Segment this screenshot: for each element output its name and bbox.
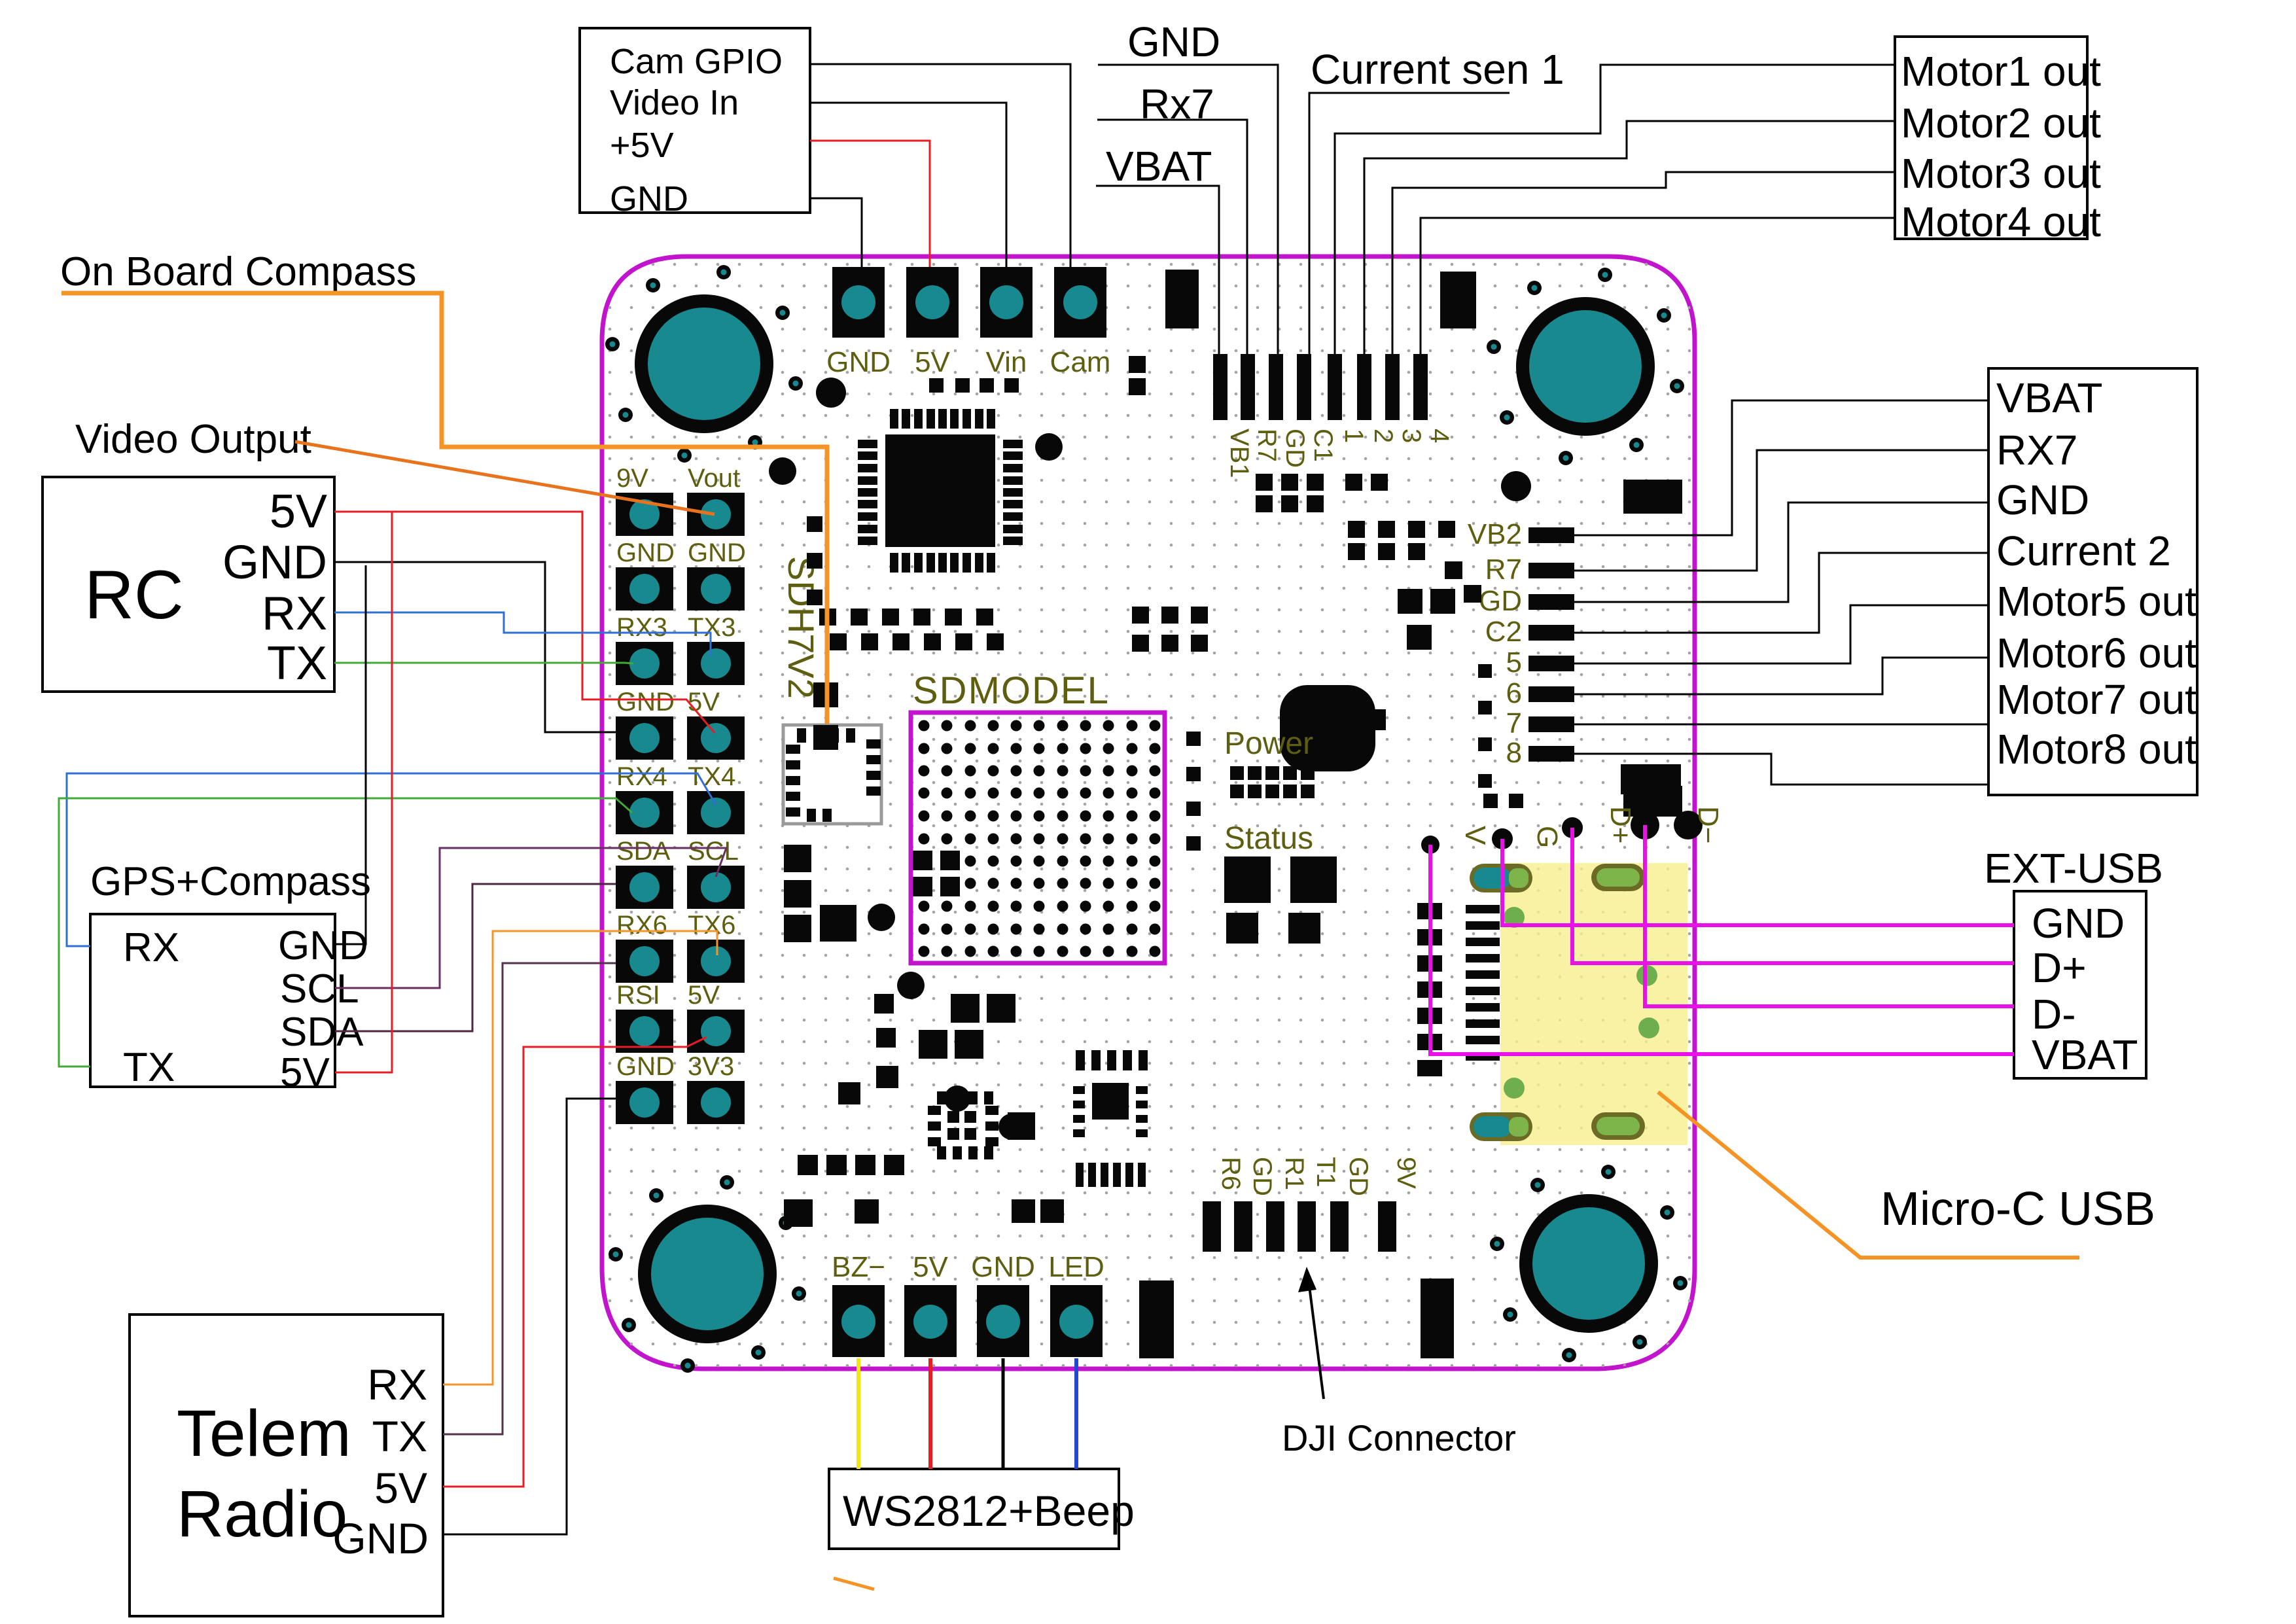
svg-text:Video In: Video In [610, 83, 739, 122]
via [769, 457, 796, 485]
header pad 5V [687, 716, 745, 760]
square right of QFN [1008, 1112, 1035, 1140]
svg-text:RX3: RX3 [616, 613, 667, 642]
svg-text:Power: Power [1224, 726, 1313, 761]
svg-text:GND: GND [332, 1514, 429, 1562]
wire Telem RX (orange) [443, 931, 717, 1385]
svg-text:GD: GD [1280, 429, 1309, 468]
wire LED (blue) [1074, 1358, 1078, 1469]
wire Telem TX (plum) [443, 963, 616, 1434]
svg-text:GND: GND [2032, 900, 2125, 947]
svg-text:5V: 5V [915, 346, 950, 378]
svg-text:RX: RX [123, 925, 179, 970]
header pad RX3 [616, 642, 673, 685]
header pad 9V [616, 493, 673, 536]
via [868, 904, 895, 931]
svg-text:5V: 5V [374, 1464, 427, 1512]
svg-text:G: G [1531, 826, 1563, 848]
svg-text:TX6: TX6 [688, 911, 735, 940]
mounting hole TL [635, 294, 773, 433]
svg-text:Status: Status [1224, 821, 1313, 856]
USB pad spare [1674, 811, 1703, 839]
green via [1504, 907, 1525, 928]
wire USB D- (magenta) [1645, 825, 2014, 1006]
Cam GPIO box text [610, 42, 783, 219]
bottom pad GND [977, 1285, 1029, 1357]
svg-text:5V: 5V [913, 1251, 948, 1283]
svg-text:TX: TX [372, 1412, 427, 1460]
svg-text:Telem: Telem [177, 1397, 351, 1470]
svg-text:4: 4 [1425, 429, 1454, 443]
svg-text:GND: GND [688, 538, 746, 567]
passives row y1765 [798, 1155, 904, 1175]
QFN chip U3 [928, 1091, 998, 1159]
GPS box text [123, 923, 368, 1095]
right pad 6 [1528, 686, 1574, 702]
svg-text:Motor5 out: Motor5 out [1996, 578, 2197, 625]
svg-text:GND: GND [1996, 476, 2089, 523]
Telem Radio text [177, 1360, 429, 1562]
via ring around hole BR [1490, 1165, 1687, 1362]
right pins text [1996, 374, 2197, 773]
svg-text:Current sen 1: Current sen 1 [1311, 46, 1564, 93]
top rect near board TR [1440, 272, 1476, 328]
svg-text:+5V: +5V [610, 126, 674, 165]
passive pair left-mid [813, 682, 838, 750]
barometer (black blob) [1280, 685, 1386, 771]
bottom pad BZ− [832, 1285, 885, 1357]
right pad 8 [1528, 746, 1574, 762]
top pin strip pads VB1 R7 GD C1 1 2 3 4 [1213, 354, 1428, 420]
MCU U1 (STM32) with pins [858, 409, 1023, 573]
wire GPS SDA (plum) [335, 884, 616, 1031]
wire Micro-C USB pointer (orange) [1658, 1092, 2079, 1258]
green via [1638, 1017, 1659, 1038]
passives small below BGA [874, 994, 896, 1048]
wire pin7 to Motor7 out [1574, 724, 1988, 726]
svg-text:2: 2 [1369, 429, 1398, 443]
USB pad V [1421, 836, 1439, 854]
svg-text:SDH7V2: SDH7V2 [781, 556, 822, 699]
svg-text:Radio: Radio [177, 1477, 347, 1551]
passives lower-left [838, 1066, 898, 1104]
Motor1-4 box [1895, 37, 2087, 239]
svg-text:DJI Connector: DJI Connector [1282, 1417, 1516, 1458]
passives 2x2 below BGA [919, 994, 1016, 1059]
black rect right of LED pad [1139, 1280, 1174, 1358]
svg-text:SDMODEL: SDMODEL [913, 669, 1110, 712]
via [944, 1086, 970, 1112]
wire RC RX (blue) [334, 612, 711, 656]
DJI strip pad 9V [1378, 1201, 1396, 1252]
passives left of baro [1132, 607, 1208, 652]
wire On Board Compass (orange) [62, 293, 827, 724]
svg-text:7: 7 [1506, 707, 1522, 739]
svg-text:GND: GND [971, 1251, 1035, 1283]
svg-text:Motor8 out: Motor8 out [1996, 726, 2197, 773]
svg-text:TX: TX [267, 637, 327, 690]
svg-text:VBAT: VBAT [2032, 1031, 2138, 1078]
right pad C2 [1528, 625, 1574, 641]
RC box [43, 477, 334, 692]
squares below Status [1224, 856, 1337, 944]
passives right of header [807, 516, 822, 605]
wire USB GND (magenta) [1502, 839, 2014, 925]
via [1501, 471, 1531, 501]
svg-text:GND: GND [222, 537, 327, 589]
right pad 5 [1528, 656, 1574, 671]
passives 2x2 left of BGA [913, 851, 960, 896]
svg-text:5V: 5V [688, 688, 720, 716]
svg-text:Motor4 out: Motor4 out [1901, 198, 2101, 245]
right pad VB2 [1528, 527, 1574, 543]
svg-text:Cam: Cam [1050, 346, 1111, 378]
header pad SCL [687, 866, 745, 909]
rect right-mid-low [1623, 786, 1682, 817]
wire GPS GND (black) [335, 565, 366, 944]
wire GND label to GD pin [1098, 65, 1278, 354]
svg-text:5: 5 [1506, 646, 1522, 679]
QFN chip U4 [1073, 1050, 1148, 1187]
EXT-USB text [2032, 900, 2138, 1078]
rect right of TR hole [1623, 480, 1682, 514]
wire +5V to 5V pad (red) [810, 141, 930, 267]
svg-text:GND: GND [1127, 18, 1220, 65]
svg-text:Cam GPIO: Cam GPIO [610, 42, 783, 81]
svg-text:TX: TX [123, 1045, 175, 1090]
svg-text:8: 8 [1506, 737, 1522, 769]
USB mount pad BR [1591, 1112, 1645, 1140]
USB pad G [1492, 828, 1513, 849]
svg-text:Motor7 out: Motor7 out [1996, 676, 2197, 723]
svg-text:D+: D+ [1604, 806, 1636, 843]
svg-text:5V: 5V [270, 485, 327, 538]
svg-text:1: 1 [1339, 429, 1368, 443]
flight controller board outline (magenta) [602, 256, 1695, 1369]
GPS box [90, 914, 335, 1087]
passives right of 5V pad [1012, 1199, 1064, 1223]
svg-text:RX: RX [262, 588, 327, 640]
top pad Vin [980, 267, 1033, 338]
passive big square [820, 905, 857, 942]
wire GPS SCL (plum) [335, 848, 726, 988]
passive pair near TR [1129, 356, 1146, 395]
wire GPS 5V (red) [335, 512, 392, 1072]
right strip pair [1483, 794, 1523, 808]
top pad 5V [906, 267, 959, 338]
svg-text:VBAT: VBAT [1106, 143, 1212, 190]
wire Video Output (orange) [295, 442, 715, 514]
svg-text:GND: GND [616, 1052, 675, 1081]
svg-text:Motor1 out: Motor1 out [1901, 48, 2101, 95]
svg-text:TX4: TX4 [688, 762, 735, 791]
USB pad D+ [1562, 817, 1583, 838]
header pad RX6 [616, 940, 673, 983]
wire Telem GND (black) [443, 1099, 616, 1534]
Telem Radio box [130, 1315, 443, 1616]
rect above USB [1621, 764, 1681, 794]
svg-text:RX: RX [367, 1360, 427, 1409]
wire pin5 to Motor5 out [1574, 605, 1988, 663]
wire Telem 5V (red) [443, 1037, 707, 1487]
svg-text:RX6: RX6 [616, 911, 667, 940]
Motor1-4 text [1901, 48, 2101, 245]
passives diag pair [1445, 561, 1481, 603]
stray orange segment [834, 1578, 874, 1589]
wire BZ- (yellow) [857, 1358, 860, 1469]
wire pin6 to Motor6 out [1574, 658, 1988, 694]
svg-text:6: 6 [1506, 677, 1522, 709]
svg-text:GND: GND [826, 346, 891, 378]
bottom pad 5V [904, 1285, 957, 1357]
wire Rx7 label to R7 pin [1097, 120, 1247, 354]
via ring around hole TL [605, 265, 803, 463]
black rect bottom right [1421, 1279, 1454, 1358]
header pad RX4 [616, 791, 673, 834]
svg-text:Motor2 out: Motor2 out [1901, 99, 2101, 147]
svg-text:D−: D− [1692, 806, 1724, 843]
wire C2 to Current 2 [1574, 553, 1988, 633]
svg-text:VBAT: VBAT [1996, 374, 2102, 421]
wire RC 5V (red) [334, 512, 715, 733]
passives col left of BGA [784, 845, 811, 942]
top pad Cam [1054, 267, 1106, 338]
wire GND to GND pad [810, 198, 862, 267]
passives below MCU row1 [819, 609, 993, 626]
svg-text:GND: GND [616, 688, 675, 716]
svg-text:T1: T1 [1311, 1157, 1340, 1188]
DJI connector arrow [1298, 1267, 1324, 1399]
header pad SDA [616, 866, 673, 909]
svg-text:Vin: Vin [986, 346, 1027, 378]
right pad GD [1528, 594, 1574, 610]
svg-text:WS2812+Beep: WS2812+Beep [843, 1487, 1135, 1535]
svg-text:3V3: 3V3 [688, 1052, 734, 1081]
svg-text:RSI: RSI [616, 981, 660, 1010]
svg-text:Micro-C USB: Micro-C USB [1881, 1183, 2155, 1235]
passives cluster center-right [1348, 521, 1455, 560]
USB mount pad TR [1591, 864, 1645, 891]
on-board compass chip U2 (gray outline) [783, 725, 881, 824]
svg-text:R6: R6 [1216, 1157, 1245, 1190]
via ring around hole TR [1487, 268, 1684, 465]
green via [1636, 965, 1657, 986]
mounting hole BR [1519, 1194, 1658, 1333]
bottom pad LED [1050, 1285, 1103, 1357]
svg-text:D+: D+ [2032, 944, 2087, 991]
wire Cam GPIO to Cam pad [810, 64, 1070, 267]
wire pin3 to Motor3 out [1392, 172, 1895, 354]
passives below MCU row2 [830, 633, 1004, 650]
svg-text:R7: R7 [1252, 429, 1281, 462]
DJI strip pad R1 [1266, 1201, 1284, 1252]
EXT-USB box [2014, 891, 2146, 1078]
svg-text:Motor3 out: Motor3 out [1901, 150, 2101, 197]
svg-text:RX4: RX4 [616, 762, 667, 791]
header pad 5V [687, 1010, 745, 1053]
svg-text:GPS+Compass: GPS+Compass [90, 859, 371, 904]
svg-text:GD: GD [1248, 1157, 1277, 1196]
svg-text:V: V [1459, 826, 1491, 845]
svg-text:GD: GD [1344, 1157, 1373, 1196]
header pad RSI [616, 1010, 673, 1053]
svg-text:R7: R7 [1485, 554, 1522, 586]
USB highlight (yellow) [1500, 863, 1687, 1145]
USB connector pins [1466, 905, 1500, 1061]
svg-text:5V: 5V [280, 1050, 330, 1095]
wire GD to GND [1574, 503, 1988, 602]
svg-text:Video Output: Video Output [75, 417, 311, 462]
DJI strip pad T1 [1298, 1201, 1316, 1252]
green via [1504, 1078, 1525, 1099]
svg-text:9V: 9V [1392, 1157, 1421, 1189]
svg-text:5V: 5V [688, 981, 720, 1010]
via ring around hole BL [609, 1175, 806, 1373]
DJI strip pad GD [1330, 1201, 1349, 1252]
svg-text:BZ−: BZ− [832, 1251, 885, 1283]
DJI strip pad R6 [1203, 1201, 1221, 1252]
svg-text:C1: C1 [1309, 429, 1337, 462]
USB shield pads [1417, 903, 1442, 1076]
svg-text:GND: GND [278, 923, 368, 968]
USB pad D- [1631, 811, 1659, 839]
USB mount pad BL [1470, 1112, 1532, 1141]
wire VB2 to VBAT [1574, 400, 1988, 535]
svg-text:VB1: VB1 [1225, 429, 1254, 478]
svg-text:Vout: Vout [688, 464, 740, 493]
svg-text:LED: LED [1048, 1251, 1104, 1283]
passives under top pads [929, 378, 1019, 393]
wire pin1 to Motor1 out [1335, 65, 1895, 354]
wire GPS TX (green) [59, 798, 632, 1067]
right pad R7 [1528, 563, 1574, 578]
svg-text:9V: 9V [616, 464, 648, 493]
wire Current sen 1 to C1 pin [1309, 93, 1510, 354]
svg-text:GND: GND [616, 538, 675, 567]
svg-text:EXT-USB: EXT-USB [1984, 845, 2163, 892]
svg-text:TX3: TX3 [688, 613, 735, 642]
wire R7 to RX7 [1574, 450, 1988, 571]
wire RC GND (black) [334, 562, 616, 732]
via [816, 378, 846, 408]
svg-text:RC: RC [84, 557, 184, 633]
header pad Vout [687, 493, 745, 536]
wire USB D+ (magenta) [1572, 828, 2014, 963]
WS2812 box [829, 1469, 1119, 1549]
header pad GND [687, 567, 745, 610]
top pad GND [832, 267, 885, 338]
right pins box [1988, 368, 2197, 795]
DJI strip pad GD [1234, 1201, 1252, 1252]
right pad 7 [1528, 716, 1574, 732]
header pad GND [616, 567, 673, 610]
via [1035, 433, 1063, 461]
svg-text:Motor6 out: Motor6 out [1996, 629, 2197, 677]
svg-text:C2: C2 [1485, 616, 1522, 648]
svg-text:SCL: SCL [688, 837, 739, 866]
wire 5V (red) [928, 1358, 932, 1469]
svg-text:R1: R1 [1280, 1157, 1309, 1190]
wire GPS RX (blue) [67, 773, 716, 946]
svg-text:Current 2: Current 2 [1996, 527, 2171, 574]
wire VBAT label to VB1 pin [1096, 186, 1219, 354]
svg-text:GD: GD [1479, 585, 1522, 617]
header pad GND [616, 716, 673, 760]
passives below baro [1398, 589, 1455, 650]
mounting hole TR [1516, 297, 1655, 436]
RC box text [84, 485, 327, 690]
top rect near GND pad [1165, 270, 1199, 328]
via [998, 1114, 1025, 1140]
header pad TX6 [687, 940, 745, 983]
wire RC TX (green) [334, 663, 633, 663]
svg-text:On Board Compass: On Board Compass [60, 249, 416, 294]
wire pin4 to Motor4 out [1421, 218, 1895, 354]
right strip squares [1478, 664, 1492, 788]
header pad GND [616, 1081, 673, 1124]
mounting hole BL [638, 1205, 777, 1343]
svg-text:VB2: VB2 [1468, 518, 1522, 550]
header pad TX3 [687, 642, 745, 685]
svg-text:GND: GND [610, 179, 688, 219]
svg-text:3: 3 [1397, 429, 1426, 443]
wire USB VBAT (magenta) [1430, 845, 2014, 1054]
wire pin8 to Motor8 out [1574, 754, 1988, 785]
header pad 3V3 [687, 1081, 745, 1124]
passives above GND pad [784, 1199, 879, 1227]
wire Video In to Vin pad [810, 103, 1006, 267]
board grid dots [602, 256, 1695, 1369]
svg-text:SDA: SDA [616, 837, 671, 866]
svg-text:RX7: RX7 [1996, 427, 2078, 474]
left strip tiny squares [1186, 732, 1201, 851]
passives right of MCU [1256, 474, 1388, 512]
header pad TX4 [687, 791, 745, 834]
wire pin2 to Motor2 out [1364, 121, 1895, 354]
BGA pad grid (magenta box) [911, 713, 1165, 963]
wire GND (black) [1002, 1358, 1005, 1469]
via [897, 972, 925, 999]
USB mount pad TL [1470, 864, 1532, 892]
Cam GPIO box [580, 28, 810, 213]
passives under Power [1230, 766, 1315, 798]
